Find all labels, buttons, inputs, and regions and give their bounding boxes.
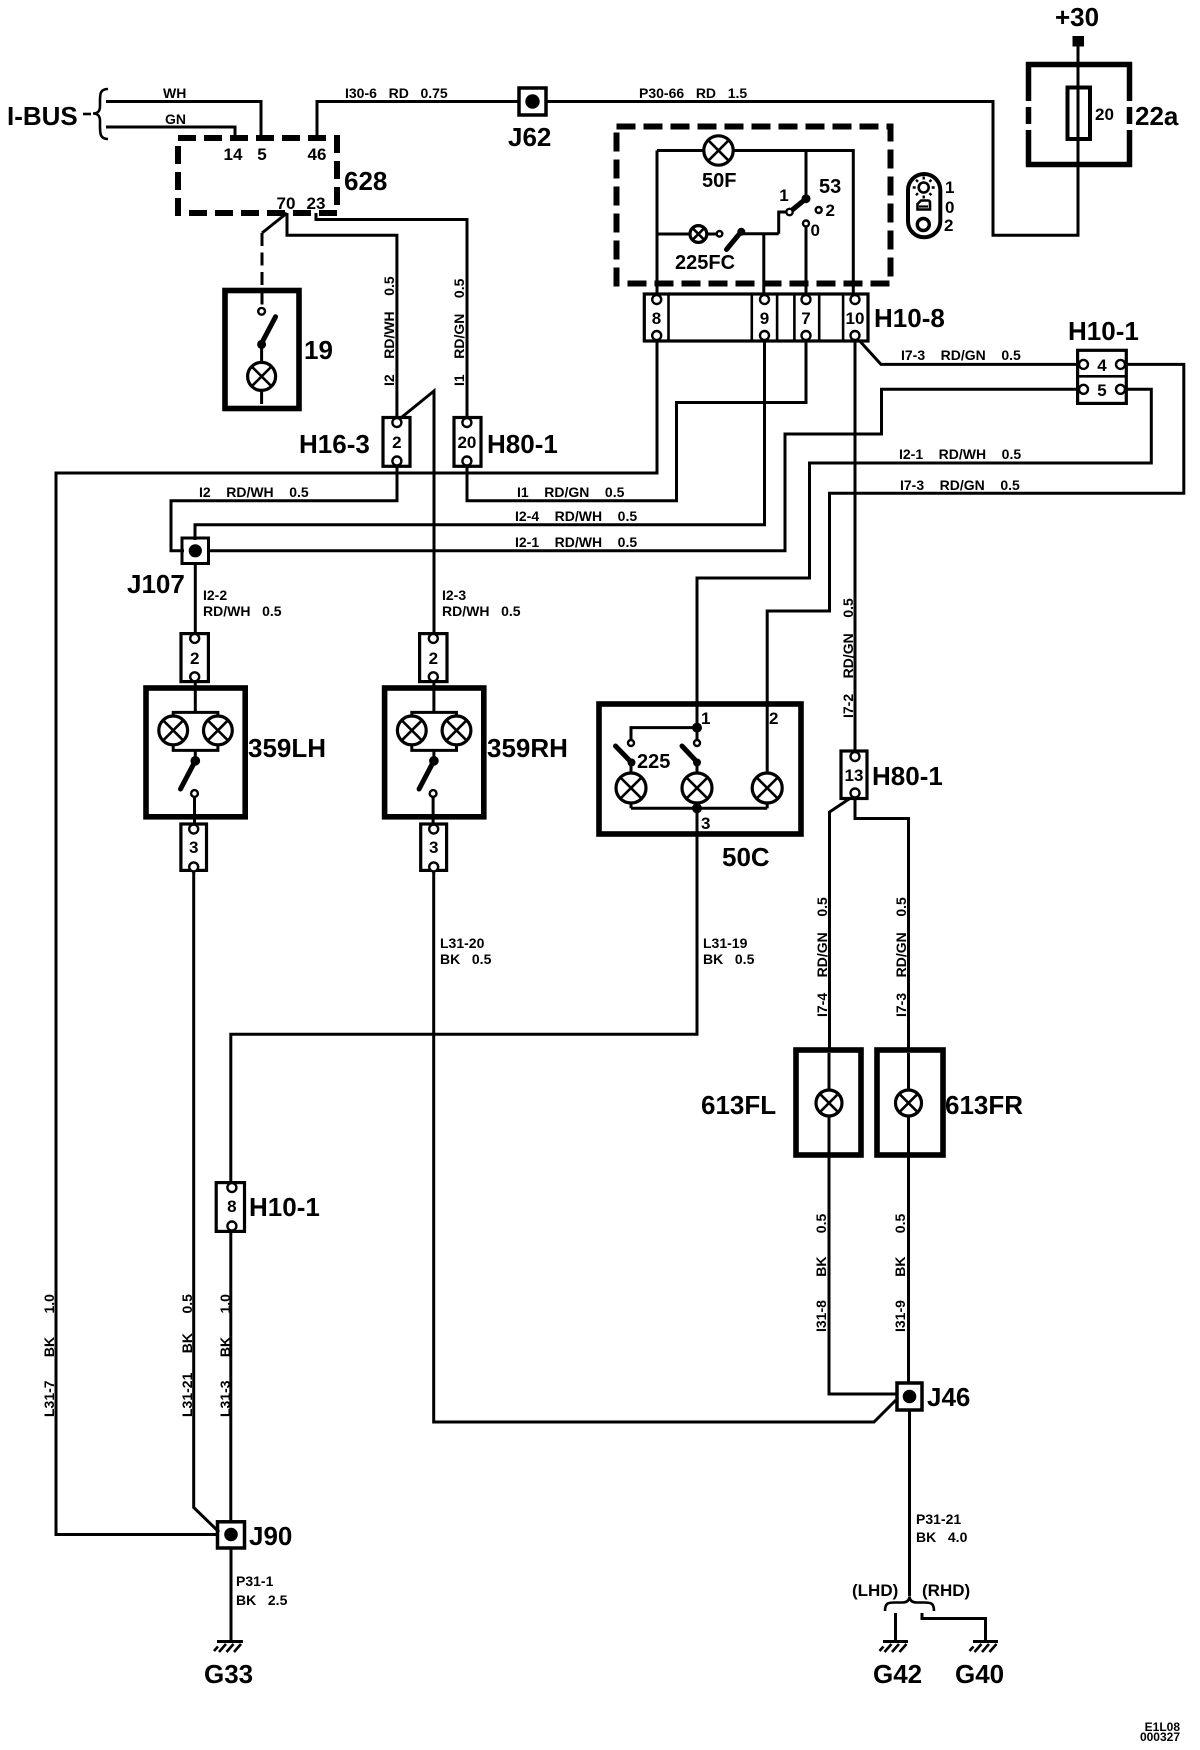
wire H80-1 pin 20 to H10-8 pin 7 (I1 RD/GN) xyxy=(467,338,806,501)
junction J46 xyxy=(897,1383,922,1410)
connector 3 of 359LH xyxy=(181,824,207,871)
svg-text:225: 225 xyxy=(637,751,670,773)
wire 50F feed row xyxy=(657,151,853,297)
wire junction J107 to H10-1 pin 5 left (I2-1 RD/WH) xyxy=(207,389,1079,551)
lamp unit 359RH xyxy=(385,688,484,817)
svg-text:RD/WH 0.5: RD/WH 0.5 xyxy=(442,603,521,619)
svg-text:L31-20: L31-20 xyxy=(440,935,485,951)
wire H10-1 pin 5 right to 50C pin 1 (I2-1 RD/WH) xyxy=(697,389,1151,727)
wire 359LH switch to connector 3 xyxy=(193,797,196,831)
svg-text:BK 0.5: BK 0.5 xyxy=(703,951,755,967)
svg-text:3: 3 xyxy=(701,814,710,833)
svg-text:P31-21: P31-21 xyxy=(916,1511,961,1527)
svg-text:I-BUS: I-BUS xyxy=(7,101,78,131)
wire 613FR to J46 (I31-9 BK) xyxy=(907,1155,910,1384)
connector 2 of 359RH xyxy=(420,634,447,682)
lamp 50F xyxy=(704,136,733,165)
svg-text:I7-3 RD/GN 0.5: I7-3 RD/GN 0.5 xyxy=(893,897,909,1017)
connector H80-1 pin 20 xyxy=(454,418,481,467)
svg-text:23: 23 xyxy=(307,194,326,213)
wire 50C lamp bus xyxy=(631,807,767,810)
svg-text:I31-9 BK 0.5: I31-9 BK 0.5 xyxy=(892,1214,908,1332)
connector H10-1 pin 8 xyxy=(216,1183,244,1232)
node LHD/RHD split brace xyxy=(885,1597,934,1612)
svg-text:I2 RD/WH 0.5: I2 RD/WH 0.5 xyxy=(381,276,397,386)
svg-text:3: 3 xyxy=(429,838,438,857)
wire from 628 pin 23 to H80-1 pin 20 (I1 RD/GN) xyxy=(316,213,467,420)
svg-text:G33: G33 xyxy=(204,1659,253,1689)
wire 50C pin 1 internal to junction xyxy=(696,704,699,728)
svg-text:RD/WH 0.5: RD/WH 0.5 xyxy=(203,603,282,619)
lamp 225FC with switch xyxy=(657,226,779,296)
svg-text:359LH: 359LH xyxy=(248,733,326,763)
svg-text:1: 1 xyxy=(779,186,788,205)
svg-text:359RH: 359RH xyxy=(487,733,568,763)
wire 50C right lamp to bus xyxy=(766,803,769,808)
svg-text:I2-1 RD/WH 0.5: I2-1 RD/WH 0.5 xyxy=(899,446,1021,462)
svg-text:I7-3 RD/GN 0.5: I7-3 RD/GN 0.5 xyxy=(900,477,1020,493)
wire 359LH connector 2 into lamp unit xyxy=(194,679,197,712)
wire 359RH connector 3 to J46 (L31-20 BK) xyxy=(434,869,896,1422)
fuse element 20 xyxy=(1068,88,1091,140)
ground G40 xyxy=(970,1642,999,1653)
svg-text:P31-1: P31-1 xyxy=(236,1573,274,1589)
svg-text:46: 46 xyxy=(308,145,327,164)
wire 359LH connector 3 to J90 (L31-21 BK) xyxy=(194,869,219,1532)
wire LHD branch to G42 xyxy=(894,1613,897,1641)
svg-text:BK 0.5: BK 0.5 xyxy=(440,951,492,967)
svg-text:H10-1: H10-1 xyxy=(1068,316,1139,346)
svg-text:19: 19 xyxy=(304,335,333,365)
wire H10-8 pin 10 down to H80-1 pin 13 (I7-2 RD/GN) xyxy=(854,338,857,754)
svg-text:1: 1 xyxy=(945,178,954,197)
svg-text:L31-21 BK 0.5: L31-21 BK 0.5 xyxy=(179,1294,195,1417)
svg-text:2: 2 xyxy=(769,709,778,728)
svg-text:I7-3 RD/GN 0.5: I7-3 RD/GN 0.5 xyxy=(901,347,1021,363)
wire 613FL internal xyxy=(828,1053,831,1153)
svg-text:2: 2 xyxy=(429,649,438,668)
svg-text:9: 9 xyxy=(760,309,769,328)
svg-text:13: 13 xyxy=(845,766,864,785)
svg-text:J90: J90 xyxy=(249,1521,292,1551)
wire GN from I-BUS to 628 pin 14 xyxy=(106,127,235,138)
svg-text:628: 628 xyxy=(344,166,387,196)
svg-text:4: 4 xyxy=(1097,356,1107,375)
junction J107 xyxy=(182,538,209,564)
svg-text:L31-7 BK 1.0: L31-7 BK 1.0 xyxy=(41,1294,57,1417)
wire H10-1 pin 4 right to 50C pin 2 (I7-3 RD/GN) xyxy=(767,364,1184,773)
svg-text:I7-2 RD/GN 0.5: I7-2 RD/GN 0.5 xyxy=(840,598,856,718)
svg-text:I1 RD/GN 0.5: I1 RD/GN 0.5 xyxy=(517,484,625,500)
fuse box 22a (dash-sided) xyxy=(1026,62,1132,167)
svg-text:53: 53 xyxy=(819,176,841,198)
svg-text:P30-66 RD 1.5: P30-66 RD 1.5 xyxy=(639,85,747,101)
svg-text:I30-6 RD 0.75: I30-6 RD 0.75 xyxy=(345,85,448,101)
connector H10-8 (pins 8,9,7,10) xyxy=(644,294,868,341)
wire 359RH lamp bus bottom xyxy=(412,745,457,751)
svg-text:8: 8 xyxy=(652,309,661,328)
svg-text:2: 2 xyxy=(826,201,835,220)
svg-text:20: 20 xyxy=(457,433,476,452)
contact 2 of switch 53 xyxy=(816,207,822,213)
wire WH from I-BUS to 628 pin 5 xyxy=(106,102,261,139)
power terminal +30 xyxy=(1073,36,1085,47)
wire dashed from 628 pin 70 to switch 19 xyxy=(262,213,287,233)
svg-text:L31-19: L31-19 xyxy=(703,935,748,951)
svg-text:0: 0 xyxy=(811,221,820,240)
svg-text:613FL: 613FL xyxy=(701,1090,776,1120)
wire 50C junction to middle switch xyxy=(696,728,699,740)
wire RHD branch to G40 xyxy=(922,1613,986,1641)
wire from 628 pin 70 to H16-3 pin 2 (I2 RD/WH) xyxy=(287,213,397,420)
svg-text:WH: WH xyxy=(163,85,186,101)
svg-text:I2 RD/WH 0.5: I2 RD/WH 0.5 xyxy=(199,484,309,500)
wire H16-3 pin 2 to junction J107 (I2 RD/WH) xyxy=(171,463,397,551)
junction J90 xyxy=(218,1522,245,1548)
wire 359RH switch to connector 3 xyxy=(432,797,435,831)
connector H16-3 pin 2 xyxy=(383,418,410,467)
svg-text:J107: J107 xyxy=(127,569,185,599)
svg-text:L31-3 BK 1.0: L31-3 BK 1.0 xyxy=(217,1294,233,1417)
svg-text:I7-4 RD/GN 0.5: I7-4 RD/GN 0.5 xyxy=(814,897,830,1017)
connector 2 of 359LH xyxy=(181,634,208,682)
wire H80-1 pin 13 to 613FL (I7-4 RD/GN) xyxy=(830,795,856,1052)
indicator symbol (light mode 1-0-2) xyxy=(908,174,940,237)
wire 50C middle lamp to bus xyxy=(696,763,699,809)
connector H80-1 pin 13 xyxy=(841,751,867,799)
svg-text:H16-3: H16-3 xyxy=(299,429,370,459)
wire 359RH switch feed xyxy=(432,750,435,758)
svg-text:22a: 22a xyxy=(1135,101,1179,131)
svg-text:613FR: 613FR xyxy=(945,1090,1023,1120)
svg-text:+30: +30 xyxy=(1055,2,1099,32)
svg-text:H80-1: H80-1 xyxy=(872,761,943,791)
svg-text:0: 0 xyxy=(945,198,954,217)
svg-text:BK 4.0: BK 4.0 xyxy=(916,1529,968,1545)
svg-text:I2-4 RD/WH 0.5: I2-4 RD/WH 0.5 xyxy=(515,508,637,524)
svg-text:G40: G40 xyxy=(955,1659,1004,1689)
wire I30-6 RD 0.75 from 628 pin 46 to J62 xyxy=(317,102,519,139)
wire H10-8 pin 8 to left ground trunk (L31-7 BK) xyxy=(56,338,657,1535)
svg-text:10: 10 xyxy=(846,309,865,328)
svg-text:(RHD): (RHD) xyxy=(922,1581,970,1600)
wire 50C left lamp to bus xyxy=(630,763,633,809)
svg-text:8: 8 xyxy=(227,1197,236,1216)
svg-text:225FC: 225FC xyxy=(675,252,735,274)
ground G42 xyxy=(880,1642,909,1653)
svg-text:50F: 50F xyxy=(702,170,736,192)
svg-text:2: 2 xyxy=(944,216,953,235)
svg-text:2: 2 xyxy=(392,433,401,452)
svg-text:H10-1: H10-1 xyxy=(249,1192,320,1222)
contact 0 of switch 53 xyxy=(803,221,809,297)
svg-text:1: 1 xyxy=(701,709,710,728)
svg-text:I2-2: I2-2 xyxy=(203,587,227,603)
switch 19 with lamp xyxy=(225,291,299,409)
svg-text:I2-1 RD/WH 0.5: I2-1 RD/WH 0.5 xyxy=(515,534,637,550)
lamp 613FR xyxy=(877,1050,943,1155)
wire H10-8 pin 10 to H10-1 pin 4 (I7-3 RD/GN) xyxy=(857,338,1079,364)
svg-text:J62: J62 xyxy=(508,122,551,152)
lamp unit 359LH xyxy=(146,688,245,817)
node I-BUS brace xyxy=(83,89,108,139)
svg-text:20: 20 xyxy=(1095,105,1114,124)
control module 628 (dashed) xyxy=(178,138,337,213)
wire 359RH connector 2 into lamp unit xyxy=(432,679,435,712)
svg-text:3: 3 xyxy=(189,838,198,857)
wire J90 to ground G33 (P31-1 BK) xyxy=(230,1547,233,1641)
wire 359RH lamp bus top xyxy=(412,712,457,716)
wire 359LH switch feed xyxy=(194,750,197,758)
wire 359LH lamp bus top xyxy=(173,712,218,716)
switch 53 xyxy=(779,151,811,234)
svg-text:5: 5 xyxy=(1097,381,1106,400)
wire diagonal H16-3 pin 2 to 359RH feed (I2-3 RD/WH) xyxy=(397,391,434,636)
wire P30-66 RD 1.5 from J62 to fuse 22a xyxy=(546,46,1078,235)
wire J46 to LHD/RHD split (P31-21 BK) xyxy=(908,1409,911,1596)
connector J62 xyxy=(519,88,546,115)
wire junction J107 down to 359LH connector 2 (I2-2 RD/WH) xyxy=(194,562,197,636)
lamp unit 50C xyxy=(599,704,801,834)
svg-text:(LHD): (LHD) xyxy=(852,1581,898,1600)
wire 613FR internal xyxy=(907,1053,910,1153)
wire H80-1 pin 13 to 613FR (I7-3 RD/GN) xyxy=(855,795,909,1052)
svg-text:BK 2.5: BK 2.5 xyxy=(236,1592,288,1608)
lamp switch unit 53/50F/225FC (dashed box) xyxy=(617,127,891,284)
wire 613FL to J46 (I31-8 BK) xyxy=(829,1155,898,1394)
ground G33 xyxy=(214,1642,243,1653)
svg-text:70: 70 xyxy=(277,194,296,213)
svg-text:000327: 000327 xyxy=(1140,1730,1180,1744)
svg-text:7: 7 xyxy=(801,309,810,328)
svg-text:H10-8: H10-8 xyxy=(874,303,945,333)
svg-text:5: 5 xyxy=(257,145,266,164)
connector H10-1 (pins 4,5) xyxy=(1078,350,1127,403)
wire 50C pin 3 to H10-1 pin 8 to J90 (L31-19 / L31-3 BK) xyxy=(231,808,697,1185)
svg-text:G42: G42 xyxy=(873,1659,922,1689)
connector 3 of 359RH xyxy=(421,824,447,871)
wire 50C junction to left switch xyxy=(631,728,697,740)
svg-text:H80-1: H80-1 xyxy=(487,429,558,459)
svg-text:50C: 50C xyxy=(722,842,770,872)
wire H10-8 pin 9 to junction J107 (I2-4 RD/WH) xyxy=(195,338,765,540)
svg-text:14: 14 xyxy=(224,145,243,164)
svg-text:GN: GN xyxy=(165,111,186,127)
svg-text:2: 2 xyxy=(190,649,199,668)
svg-text:I31-8 BK 0.5: I31-8 BK 0.5 xyxy=(813,1214,829,1332)
wire 359LH lamp bus bottom xyxy=(173,745,218,751)
svg-text:J46: J46 xyxy=(927,1382,970,1412)
svg-text:I2-3: I2-3 xyxy=(442,587,466,603)
svg-text:I1 RD/GN 0.5: I1 RD/GN 0.5 xyxy=(451,278,467,386)
lamp 613FL xyxy=(796,1050,861,1155)
